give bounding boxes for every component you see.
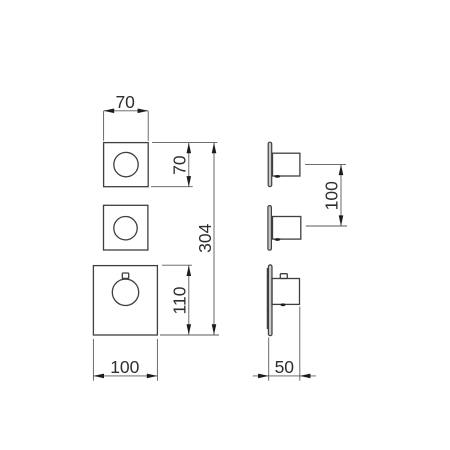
- svg-text:100: 100: [322, 181, 342, 210]
- dim 110: bottom arrowhead: [187, 324, 192, 335]
- dim 304: top arrowhead: [212, 143, 217, 154]
- dim 100 right: top arrowhead: [339, 165, 344, 176]
- svg-text:70: 70: [170, 155, 190, 175]
- dim 100 bottom: dimension line: [93, 375, 157, 377]
- dim 110: top extension line: [162, 264, 192, 266]
- svg-text:304: 304: [195, 223, 215, 252]
- side view top: handle cylinder: [273, 153, 300, 176]
- dim 110: bottom extension line: [160, 334, 219, 336]
- side view bottom: back plate edge: [266, 268, 268, 329]
- dim 100 right: bottom arrowhead: [339, 215, 344, 226]
- dim 100 bottom: left extension line: [92, 339, 94, 381]
- dim 50: left arrowhead (outside, pointing right): [258, 374, 269, 379]
- dim 100 bottom: right arrowhead: [147, 374, 158, 379]
- dim 70 right: dimension line: [188, 143, 190, 187]
- dim 70 right: top arrowhead: [187, 143, 192, 154]
- side view bottom: wall plate: [268, 265, 272, 336]
- dim 50: left extension line: [268, 338, 270, 381]
- dim 100 right: top extension line: [305, 163, 346, 165]
- svg-text:50: 50: [275, 357, 295, 377]
- dim 50: dimension line: [253, 375, 316, 377]
- side view top: wall plate: [268, 142, 272, 186]
- front view: thermostat plate square S3: [93, 266, 157, 335]
- dim 70 top: left extension line: [103, 111, 105, 141]
- dim 100 bottom: right extension line: [156, 339, 158, 381]
- side view middle: wall plate: [268, 206, 272, 251]
- dim 110: dimension line: [188, 265, 190, 334]
- svg-text:100: 100: [110, 357, 139, 377]
- dim 70 right: top extension line: [152, 142, 218, 144]
- front view: middle handle plate square S2: [104, 205, 148, 250]
- dim 304: dimension line: [213, 143, 215, 335]
- side view middle: set screw mark: [275, 238, 281, 241]
- front view: knob index tab: [122, 273, 128, 278]
- dim 70 top: right extension line: [147, 111, 149, 141]
- front view: thermostat knob circle: [112, 279, 138, 305]
- front view: knob circle in S1: [114, 152, 138, 176]
- dim 100 right: bottom extension line: [306, 225, 347, 227]
- front view: top handle plate square S1: [104, 143, 149, 187]
- dim 70 top: left arrowhead: [104, 109, 115, 114]
- dim 100 right: dimension line: [340, 165, 342, 226]
- dim 70 top: right arrowhead: [138, 109, 149, 114]
- dim 70 top: dimension line: [104, 110, 149, 112]
- dim 100 bottom: left arrowhead: [93, 374, 104, 379]
- dim 304: bottom arrowhead: [212, 324, 217, 335]
- svg-text:110: 110: [170, 286, 190, 314]
- side view bottom: set screw mark: [281, 303, 286, 306]
- svg-text:70: 70: [115, 92, 135, 112]
- dim 70 right: bottom arrowhead: [187, 176, 192, 187]
- front view: knob circle in S2: [114, 217, 137, 240]
- dim 50: right extension line: [299, 307, 301, 381]
- dim 50: right arrowhead (outside, pointing left): [300, 374, 311, 379]
- side view bottom: knob index tab: [280, 274, 287, 279]
- side view middle: handle cylinder: [273, 217, 301, 240]
- side view bottom: handle cylinder: [272, 279, 300, 305]
- dim 110: top arrowhead: [187, 265, 192, 276]
- side view top: set screw mark: [275, 175, 281, 178]
- dim 70 right: bottom extension line: [151, 186, 193, 188]
